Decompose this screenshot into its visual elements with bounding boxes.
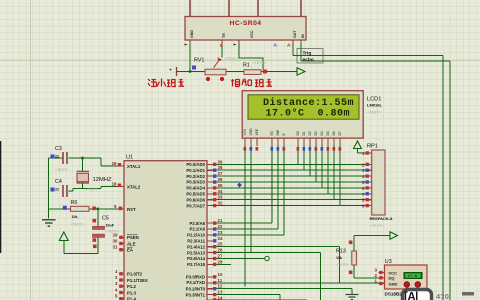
svg-text:TR: TR [222,33,226,38]
svg-text:30: 30 [113,239,118,244]
wire P0.7 row [217,205,366,207]
wire P2.7 stub [217,263,232,265]
svg-text:P2.6/A14: P2.6/A14 [187,256,206,261]
capacitor C4 [63,185,67,197]
svg-text:12: 12 [218,284,223,289]
U1 right pin stubs P3 [207,277,214,300]
U1 right pin stubs P2 [207,223,214,264]
ground (small, near U3) [346,295,359,300]
wire LCD RS vertical [271,146,273,223]
wire C4 right to XTAL2 [69,187,118,192]
wire C3 right to XTAL1 [69,158,118,166]
wire HC-SR04 VCC pin down to R1 right [239,44,263,70]
wire LCD D7 vertical [339,146,341,206]
svg-text:<TEXT>: <TEXT> [370,224,385,228]
svg-text:RV1: RV1 [194,58,204,64]
svg-text:25: 25 [218,242,223,247]
svg-text:17.0°C 0.80m: 17.0°C 0.80m [266,108,351,120]
wire P2.0 row [217,222,273,224]
svg-text:P2.4/A12: P2.4/A12 [187,244,206,249]
U1 left pin stubs [118,166,125,299]
svg-text:P1.0/T2: P1.0/T2 [127,272,143,277]
svg-text:<TEXT>: <TEXT> [71,223,84,227]
svg-text:VDD: VDD [249,128,253,136]
svg-text:D4: D4 [320,131,324,135]
HC-SR04 U-module body [185,17,306,41]
wire LCD E vertical [283,146,285,235]
LCD pin names [243,128,342,136]
R6 squares [63,206,67,210]
arrow terminal right (R13 net) [390,232,398,239]
resistor R13 [352,251,357,265]
major grid line vertical [30,0,32,300]
svg-text:VCC: VCC [250,30,254,38]
wire LCD D0 vertical [297,146,299,164]
svg-text:RP1: RP1 [367,144,378,150]
svg-text:P0.6/AD6: P0.6/AD6 [186,197,205,202]
svg-text:<TEXT>: <TEXT> [86,188,99,192]
wire P3.4 row down [217,299,308,300]
svg-text:HC-SR04: HC-SR04 [230,20,262,27]
svg-text:RS: RS [270,130,274,135]
svg-text:19: 19 [112,161,117,166]
wire P0.5 row [217,193,366,195]
resistor R1 [244,70,261,75]
wire R6 to RST pin9 [89,208,118,210]
svg-text:VEE: VEE [255,128,259,135]
capacitor C5 (polarized) [93,226,105,229]
svg-text:A: A [274,43,278,49]
svg-text:10k: 10k [72,215,78,219]
U3 DS18B20 body [385,265,428,289]
svg-text:23: 23 [218,230,223,235]
U1 right squares P3 [213,275,216,278]
watermark [403,290,475,300]
svg-text:P0.2/AD2: P0.2/AD2 [186,174,205,179]
node junction RST [97,208,99,210]
wire crystal bottom [82,183,84,189]
svg-text:38: 38 [218,165,223,170]
svg-text:PSEN: PSEN [127,235,139,240]
svg-text:RESPACK-8: RESPACK-8 [370,216,394,221]
power arrow (VCC, reset circuit) [59,232,68,241]
major grid line horizontal [0,60,480,62]
wire pot to R1 [224,71,244,73]
wire P2.4 row to R13 area [217,247,340,284]
U1 right squares P0 [213,163,216,166]
wire LCD D4 vertical [321,146,323,188]
svg-text:U3: U3 [385,259,392,265]
crystal X1 12MHZ [77,173,89,181]
MCU U1 body [124,161,207,300]
svg-text:<TEXT>: <TEXT> [336,263,349,267]
svg-text:R13: R13 [336,249,346,255]
resistor R6 [71,206,90,211]
svg-text:<TEXT>: <TEXT> [225,57,238,61]
wire C3 left [49,157,63,159]
confetti pin squares [51,43,383,300]
left screen-edge black strip [0,141,1,253]
svg-text:P0.7/AD7: P0.7/AD7 [186,203,205,208]
svg-text:XTAL1: XTAL1 [127,164,141,169]
wire LCD RW vertical [277,146,279,229]
wire P3.3 row down [217,295,281,300]
RP1 respack body [372,150,385,215]
RP1 squares [366,151,369,154]
wire LCD D2 vertical [309,146,311,176]
svg-text:28: 28 [218,259,223,264]
HC-SR04 pin names [190,30,305,38]
svg-text:P3.2/INT0: P3.2/INT0 [186,286,206,291]
svg-text:17.0: 17.0 [408,275,418,279]
svg-text:22: 22 [55,155,59,159]
wire LCD D3 vertical [315,146,317,182]
svg-text:D2: D2 [308,131,312,135]
svg-text:35: 35 [218,183,223,188]
svg-text:14: 14 [218,296,223,300]
svg-text:[A|: [A| [404,292,418,300]
svg-text:VSS: VSS [243,128,247,135]
wire HC-SR04 TR pin down to pot wiper [221,44,223,58]
svg-text:10k: 10k [336,256,342,260]
svg-text:31: 31 [113,245,118,250]
wire IN pin down [300,44,302,61]
svg-text:P0.4/AD4: P0.4/AD4 [186,186,205,191]
wire P2.2 row [217,234,285,236]
svg-text:18: 18 [112,182,117,187]
wire P0.6 row [217,199,366,201]
wire echo net horizontal [301,60,450,62]
LCD1 body [242,91,363,138]
svg-text:RST: RST [127,207,136,212]
svg-text:GND: GND [190,30,194,38]
svg-text:D6: D6 [332,131,336,135]
svg-text:P0.5/AD5: P0.5/AD5 [186,192,205,197]
svg-text:34: 34 [218,189,223,194]
svg-text:P2.3/A11: P2.3/A11 [187,239,205,244]
svg-text:P2.2/A10: P2.2/A10 [187,233,206,238]
U1 right squares P2 [213,221,216,224]
LCD pin stubs [245,138,340,146]
U1 left squares [118,163,121,166]
wire ground to R6 [49,208,71,210]
svg-text:13: 13 [218,290,223,295]
svg-text:D0: D0 [296,131,300,135]
potentiometer RV1 [205,69,226,75]
svg-text:P3.0/RXD: P3.0/RXD [186,275,205,280]
U3 pin numbers [375,268,378,284]
wire P0.1 row [217,169,366,171]
wire OUT pin down [292,44,294,55]
svg-text:32: 32 [218,201,223,206]
wire Trig net horizontal [293,54,443,56]
U3 buttons [404,282,410,288]
svg-text:<TEXT>: <TEXT> [367,111,382,115]
terminal bar left of main wire [176,67,178,76]
svg-text:P1.1/T2EX: P1.1/T2EX [127,278,148,283]
svg-text:P1.3: P1.3 [127,290,136,295]
svg-text:24: 24 [218,236,223,241]
svg-text:Trig: Trig [303,50,312,56]
wire LCD D6 vertical [333,146,335,200]
svg-text:21: 21 [218,218,223,223]
U3 squares [379,271,382,274]
red annotation dots [206,77,210,81]
wire C5 bottom down [97,237,99,253]
wire P2.1 row [217,228,279,230]
wire LCD D5 vertical [327,146,329,194]
svg-text:<TEXT>: <TEXT> [253,61,266,65]
svg-text:P0.0/AD0: P0.0/AD0 [186,162,205,167]
svg-text:P1.2: P1.2 [127,284,136,289]
svg-text:P3.1/TXD: P3.1/TXD [186,280,205,285]
svg-text:ALE: ALE [127,241,136,246]
svg-text:D5: D5 [326,131,330,135]
wire P2.5 row [217,253,321,300]
svg-text:echo: echo [303,57,314,63]
node open circle P2.6 [265,256,269,260]
svg-text:P2.7/A15: P2.7/A15 [187,262,206,267]
svg-text:22: 22 [218,224,223,229]
wire P0.3 row [217,181,366,183]
wire RST node down to C5 [97,209,99,226]
wire VCC arrow to C5 [64,240,98,253]
power arrow (RP1) [354,141,362,149]
wire RP1 pin1 to power [358,149,366,154]
C5 squares [93,219,97,223]
wire P0.2 row [217,175,366,177]
svg-text:10uF: 10uF [106,224,115,228]
HC-SR04 below-box markers [185,44,188,46]
svg-text:R6: R6 [71,200,78,206]
svg-text:D7: D7 [338,131,342,135]
wire main horizontal (terminal to pot) [177,71,206,73]
node junction GND pin [189,70,191,72]
U1 right pin stubs P0 [207,164,214,205]
svg-text:33: 33 [218,195,223,200]
node junction crystal top [81,157,83,159]
svg-text:P2.5/A13: P2.5/A13 [187,250,206,255]
svg-text:DQ: DQ [389,276,395,281]
svg-text:37: 37 [218,171,223,176]
svg-text:11: 11 [218,278,223,283]
svg-text:R1: R1 [243,63,250,69]
svg-text:27: 27 [218,254,223,259]
R13 squares [349,241,353,245]
U1 left pin numbers [112,161,118,299]
RP1 pin stubs [366,153,372,206]
svg-text:4?0: 4?0 [436,292,449,300]
annotation text jian xiao ju li (decrease distance) [148,79,184,87]
wire R13 bottom to U3 DQ [354,265,379,278]
svg-text:P3.3/INT1: P3.3/INT1 [186,292,206,297]
wire C3/C4 ground vertical [48,158,50,219]
svg-text:LM016L: LM016L [367,103,382,108]
C3/C4 squares [51,155,55,159]
wire LCD VDD vertical [250,146,252,253]
svg-text:GND: GND [389,281,398,286]
LCD pin squares [244,147,247,151]
wire P3.1 row to U3 [217,282,385,284]
ground (main, left) [42,220,56,226]
pot/R1 label squares [192,66,196,70]
wire HC-SR04 GND pin down [189,44,191,72]
wire R13 top to arrow [354,236,390,252]
LCD screen [248,95,359,119]
Trig/echo callout box [297,49,323,64]
RP1 pin numbers [362,151,365,209]
svg-text:<TEXT>: <TEXT> [55,168,68,172]
svg-text:10: 10 [218,272,223,277]
wire P0.4 row [217,187,366,189]
annotation text zeng jia ju li (increase distance) [231,79,272,87]
wire Trig net vertical right [442,55,444,300]
svg-text:C5: C5 [102,216,109,222]
svg-text:VCC: VCC [389,270,398,275]
svg-text:XTAL2: XTAL2 [127,185,141,190]
svg-text:36: 36 [218,177,223,182]
wire P2.6 row to open node [217,258,265,260]
wire crystal top [82,158,84,171]
svg-text:P0.3/AD3: P0.3/AD3 [186,180,205,185]
wire P0.0 row [217,163,366,165]
U3 display [404,272,423,279]
svg-text:P2.0/A8: P2.0/A8 [189,221,205,226]
wire P3.2 row to small ground [217,289,353,294]
svg-text:P2.1/A9: P2.1/A9 [189,227,205,232]
blue diamond marker [237,183,242,188]
svg-text:C3: C3 [55,146,62,152]
HC-SR04 bottom pin stubs [190,40,301,44]
U1 right pin numbers [218,159,223,300]
svg-text:D3: D3 [314,131,318,135]
svg-text:P0.1/AD1: P0.1/AD1 [186,168,205,173]
wire LCD D1 vertical [303,146,305,170]
svg-text:D1: D1 [302,131,306,135]
wire echo net vertical right [449,61,451,300]
capacitor C3 [63,152,67,164]
svg-text:12MHZ: 12MHZ [93,177,112,183]
svg-text:P1.4: P1.4 [127,297,136,300]
svg-text:Distance:1.55m: Distance:1.55m [263,97,354,109]
svg-text:26: 26 [218,248,223,253]
svg-text:29: 29 [113,232,118,237]
arrow terminal right (R1 net) [297,68,305,75]
svg-text:A: A [287,43,291,49]
wire LCD VSS vertical [244,146,246,287]
svg-text:22: 22 [55,188,59,192]
U3 pin stubs [379,273,385,284]
svg-text:OUT: OUT [293,30,297,38]
svg-text:IN: IN [301,34,305,38]
svg-text:EA: EA [127,248,133,253]
svg-text:RW: RW [276,129,280,135]
svg-text:C4: C4 [55,179,62,185]
svg-text:+: + [169,68,172,74]
svg-text:U1: U1 [126,155,133,161]
wire R1 to arrow terminal [261,71,297,73]
svg-text:39: 39 [218,159,223,164]
